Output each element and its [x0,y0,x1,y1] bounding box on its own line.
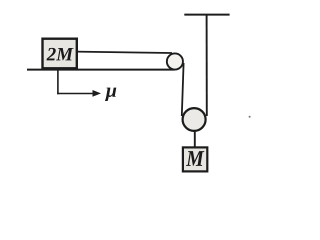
wire rope down from small pulley to big pulley [182,63,184,116]
block M [183,147,207,171]
wire rope from support down to big pulley [206,15,208,116]
big movable pulley [183,108,206,131]
label mu [105,88,116,101]
block 2M [43,39,77,69]
small pulley at table edge [167,53,183,69]
ceiling support T bar [184,14,229,16]
wire rope from block 2M to small pulley [76,52,172,53]
friction coefficient arrow annotation [57,70,101,97]
wire table surface line [27,69,175,71]
stray scan dot [249,116,251,118]
wire link from big pulley to block M [194,131,196,148]
